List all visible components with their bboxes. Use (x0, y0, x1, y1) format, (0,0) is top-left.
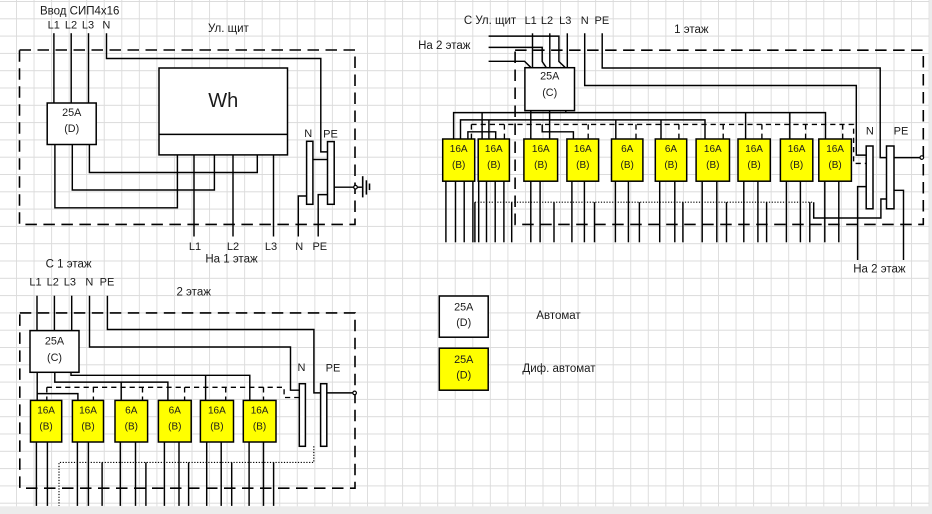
wire QF1 L1 out to meter (55, 145, 177, 208)
energy meter Wh (159, 68, 288, 155)
wire circle to ground symbol (357, 186, 362, 188)
N distribution bus dashed panel2 (47, 387, 299, 397)
bus B drop to breaker6 (660, 120, 662, 139)
wire circuit output panel3 #19 (743, 181, 745, 242)
svg-text:25А: 25А (45, 336, 65, 348)
svg-text:(В): (В) (210, 421, 223, 432)
svg-text:L2: L2 (541, 15, 553, 27)
svg-text:PE: PE (312, 241, 327, 253)
svg-text:(С): (С) (47, 352, 62, 364)
bus B drop to breaker5 (615, 120, 617, 139)
wire L2 input to breaker (70, 33, 72, 103)
N drop to breaker10 panel3 (842, 124, 844, 139)
breaker QF1 25A (D) panel1 (47, 103, 96, 145)
wire PE drop circuit 8 panel3 (766, 202, 768, 242)
wire PE drop circuit1 panel3 (474, 202, 476, 242)
svg-text:16А: 16А (826, 144, 844, 155)
wire jumper to breaker4 (542, 124, 573, 139)
wire PE input to PE bus panel3 (602, 33, 886, 157)
wire PE drop circuit 2 panel3 (511, 202, 513, 242)
svg-text:25А: 25А (454, 354, 474, 366)
wire L2 input to QF2 (53, 296, 55, 331)
svg-text:(D): (D) (64, 123, 79, 135)
svg-text:(В): (В) (828, 160, 841, 171)
wire QF3 out L2 to breaker3 right (549, 111, 551, 139)
breaker QD3.10 16А (B) panel3 (819, 139, 852, 181)
svg-text:(В): (В) (253, 421, 266, 432)
wire circuit output panel3 #22 (799, 181, 801, 242)
wire PE to 2nd floor (894, 190, 904, 260)
svg-text:(В): (В) (621, 160, 634, 171)
wire PE drop circuit 9 panel3 (809, 202, 811, 242)
wire PE drop circuit 6 panel3 (682, 202, 684, 242)
ground symbol bar 3 (short) (369, 184, 371, 191)
svg-text:(В): (В) (747, 160, 760, 171)
wire N input to N bus panel2 (90, 296, 300, 391)
svg-text:L1: L1 (189, 241, 201, 253)
bus A drop to breaker8 (745, 113, 747, 139)
N bus bar panel1 (307, 141, 313, 204)
svg-text:(В): (В) (487, 160, 500, 171)
svg-text:L3: L3 (64, 277, 76, 289)
svg-text:6А: 6А (169, 406, 182, 417)
N drop to breaker4 panel2 (184, 387, 186, 400)
wire 2nd floor tap L3 (489, 36, 566, 68)
wire L1 input to QF2 (36, 296, 38, 331)
wire circuit output 1L panel2 (35, 442, 37, 506)
wire circuit output panel3 #1 (445, 181, 447, 242)
svg-text:L3: L3 (559, 15, 571, 27)
svg-text:С 1 этаж: С 1 этаж (46, 258, 92, 270)
wire circuit output panel3 #9 (530, 181, 532, 242)
wire circuit output panel3 #10 (539, 181, 541, 242)
svg-text:(D): (D) (456, 317, 471, 329)
svg-text:25А: 25А (62, 107, 82, 119)
N drop to breaker1 panel3 (470, 124, 472, 139)
svg-text:25А: 25А (540, 70, 560, 82)
breaker QD2.6 16А (B) panel2 (243, 400, 276, 442)
panel 3 enclosure (1st floor) dashed border (515, 50, 923, 224)
PE bus bar panel3 (887, 146, 895, 209)
svg-text:25А: 25А (454, 302, 474, 314)
breaker QD2.2 16А (B) panel2 (72, 400, 103, 442)
svg-text:(В): (В) (452, 160, 465, 171)
svg-text:16А: 16А (79, 406, 97, 417)
wire PE bus to border circle panel3 (894, 157, 920, 159)
wire PE bus to ground circle (334, 186, 354, 188)
wire L3 input to breaker (88, 33, 90, 103)
wire PE drop circuit 6 panel2 (273, 462, 275, 506)
breaker QD2.4 6А (B) panel2 (158, 400, 191, 442)
legend symbol: circuit breaker 25A (D) (439, 296, 488, 337)
breaker QD3.1 16А (B) panel3 (443, 139, 475, 181)
wire circuit output 3L panel2 (119, 442, 121, 506)
N bus bar panel2 (299, 384, 305, 447)
wire PE drop circuit 4 panel3 (594, 202, 596, 242)
wire circuit output panel3 #8 (503, 181, 505, 242)
meter terminal divider line (159, 133, 288, 135)
breaker QD3.8 16А (B) panel3 (738, 139, 770, 181)
wire circuit output panel3 #15 (659, 181, 661, 242)
wire 2nd floor tap L2 (489, 47, 547, 68)
wire circuit output 4N panel2 (178, 442, 180, 506)
wire 2nd floor tap L1 (489, 61, 532, 68)
breaker QD3.5 6А (B) panel3 (612, 139, 643, 181)
svg-text:(В): (В) (576, 160, 589, 171)
svg-text:(В): (В) (39, 421, 52, 432)
phase bus A panel3 (454, 113, 826, 139)
svg-text:На 2 этаж: На 2 этаж (853, 263, 906, 275)
wire circuit output panel3 #20 (757, 181, 759, 242)
wire circuit output panel3 #2 (455, 181, 457, 242)
svg-text:6А: 6А (125, 406, 138, 417)
svg-text:Ул. щит: Ул. щит (208, 23, 250, 35)
svg-text:L3: L3 (82, 20, 94, 32)
wire circuit output panel3 #23 (824, 181, 826, 242)
breaker QD3.7 16А (B) panel3 (696, 139, 729, 181)
wire PE drop circuit 4 panel2 (188, 462, 190, 506)
N drop to breaker5 panel3 (635, 124, 637, 139)
wire L3 input to QF2 (71, 296, 73, 331)
wire meter L2 output down (232, 155, 234, 237)
breaker QD3.6 6А (B) panel3 (655, 139, 686, 181)
bus A drop to breaker2 (481, 113, 483, 139)
N drop to breaker7 panel3 (722, 124, 724, 139)
wire L2 input to QF3 (549, 33, 551, 68)
N drop to breaker6 panel3 (678, 124, 680, 139)
svg-text:16А: 16А (37, 406, 55, 417)
wire PE drop circuit 5 panel3 (638, 202, 640, 242)
breaker QD3.4 16А (B) panel3 (567, 139, 599, 181)
N drop to breaker6 panel2 (263, 387, 265, 400)
wire circuit output panel3 #7 (494, 181, 496, 242)
wire circuit output 5L panel2 (206, 442, 208, 506)
panel 2 enclosure (2nd floor) dashed border (20, 313, 355, 488)
N drop to breaker4 panel3 (587, 124, 589, 139)
wire circuit output 2N panel2 (87, 442, 89, 506)
breaker QD2.3 6А (B) panel2 (115, 400, 148, 442)
N bus bar panel3 (866, 146, 873, 209)
bus B drop to breaker2 (488, 120, 490, 139)
wire PE drop circuit 7 panel3 (726, 202, 728, 242)
svg-text:16А: 16А (485, 144, 503, 155)
svg-text:1 этаж: 1 этаж (674, 24, 709, 36)
wire circuit output panel3 #12 (583, 181, 585, 242)
legend symbol: RCBO 25A (D) yellow (439, 348, 488, 390)
svg-text:Wh: Wh (208, 90, 238, 112)
svg-text:L2: L2 (47, 277, 59, 289)
wire PE drop circuit 2 panel2 (101, 462, 103, 506)
N drop to breaker2 panel3 (503, 124, 505, 139)
svg-text:N: N (85, 277, 93, 289)
svg-text:L2: L2 (227, 241, 239, 253)
wire PE input to PE bus panel2 (107, 296, 320, 393)
N drop to breaker9 panel3 (805, 124, 807, 139)
wire meter L3 output down (273, 155, 275, 237)
svg-text:PE: PE (894, 125, 909, 137)
wire circuit output panel3 #14 (627, 181, 629, 242)
breaker QD3.2 16А (B) panel3 (478, 139, 509, 181)
svg-text:(В): (В) (534, 160, 547, 171)
ground symbol bar 2 (mid) (365, 180, 367, 194)
svg-text:16А: 16А (450, 144, 468, 155)
wire L1 input to QF3 (532, 33, 534, 68)
wire PE bus to border circle panel2 (327, 392, 353, 394)
wire PE drop circuit 3 panel3 (553, 202, 555, 242)
wire circuit output 1N panel2 (46, 442, 48, 506)
svg-text:16А: 16А (745, 144, 763, 155)
wire circuit output panel3 #13 (614, 181, 616, 242)
svg-text:PE: PE (323, 128, 338, 140)
phase bus B panel3 (461, 120, 706, 139)
wire PE drop circuit 5 panel2 (231, 462, 233, 506)
svg-text:(С): (С) (542, 87, 557, 99)
svg-text:С Ул. щит: С Ул. щит (464, 15, 517, 27)
breaker QD3.9 16А (B) panel3 (780, 139, 812, 181)
wire QF3 out L3 stub to bus A (565, 111, 567, 113)
breaker QF2 25A (C) panel2 (30, 331, 79, 373)
wire QF1 L2 out to meter (72, 145, 214, 191)
N drop to breaker3 panel2 (142, 387, 144, 400)
wire PE drop circuit 3 panel2 (145, 462, 147, 506)
wire circuit output panel3 #16 (674, 181, 676, 242)
svg-text:(В): (В) (168, 421, 181, 432)
wire N to 2nd floor (858, 187, 867, 260)
wire N-PE bridge panel1 (313, 159, 328, 161)
wire L1 jumper to breaker2 (37, 394, 78, 401)
svg-text:2 этаж: 2 этаж (176, 287, 211, 299)
svg-text:N: N (304, 128, 312, 140)
svg-text:PE: PE (595, 15, 610, 27)
svg-text:N: N (102, 20, 110, 32)
svg-text:Автомат: Автомат (536, 310, 581, 322)
wire L2 drop to breaker3 (120, 382, 122, 400)
wire PE bus output down (318, 195, 327, 237)
wire L1 input to breaker (53, 33, 55, 103)
wire circuit output 2L panel2 (76, 442, 78, 506)
N drop to breaker2 panel2 (92, 387, 94, 400)
N drop to breaker1 panel2 (46, 387, 48, 400)
svg-text:6А: 6А (621, 144, 634, 155)
PE bus bar panel2 (321, 384, 327, 447)
svg-text:(В): (В) (664, 160, 677, 171)
svg-text:16А: 16А (788, 144, 806, 155)
wire L3 drop to breaker5 (205, 375, 207, 400)
wire N input to PE bus (107, 33, 328, 152)
svg-text:(D): (D) (456, 369, 471, 381)
PE dotted distribution panel3 (475, 201, 814, 203)
svg-text:16А: 16А (532, 144, 550, 155)
wire circuit output panel3 #6 (486, 181, 488, 242)
svg-text:16А: 16А (208, 406, 226, 417)
breaker QD2.5 16А (B) panel2 (200, 400, 233, 442)
PE bus bar panel1 (328, 142, 335, 205)
svg-text:(В): (В) (706, 160, 719, 171)
svg-text:N: N (295, 241, 303, 253)
breaker QF3 25A (C) panel3 (525, 68, 575, 111)
svg-text:N: N (581, 15, 589, 27)
wire circuit output panel3 #21 (785, 181, 787, 242)
PE dotted distribution panel2 (59, 446, 314, 506)
wire L3 input to QF3 (566, 33, 568, 68)
ground symbol bar 1 (long) (362, 176, 364, 197)
wire QF2 L2 bus to breaker4 (55, 372, 168, 400)
wire meter L1 output down (193, 155, 195, 237)
wire circuit output 4L panel2 (163, 442, 165, 506)
svg-text:Диф. автомат: Диф. автомат (522, 363, 596, 375)
svg-text:N: N (866, 125, 874, 137)
breaker QD2.1 16А (B) panel2 (31, 400, 62, 442)
svg-text:L1: L1 (29, 277, 41, 289)
wire QF3 out L1 to breaker3 (530, 111, 532, 139)
wire circuit output panel3 #18 (716, 181, 718, 242)
bus A drop to breaker9 (789, 113, 791, 139)
wire circuit output 5N panel2 (220, 442, 222, 506)
N drop to breaker5 panel2 (225, 387, 227, 400)
svg-text:L2: L2 (65, 20, 77, 32)
svg-text:PE: PE (326, 362, 341, 374)
svg-text:L1: L1 (525, 15, 537, 27)
svg-text:16А: 16А (574, 144, 592, 155)
svg-text:(В): (В) (790, 160, 803, 171)
connection circle panel3 (920, 156, 924, 160)
svg-text:16А: 16А (251, 406, 269, 417)
phase bus D panel3 (468, 132, 496, 139)
wire QF2 L3 bus to breaker6 (71, 372, 250, 400)
wire circuit output 6L panel2 (248, 442, 250, 506)
wire QF2 L1 out to breaker1 (36, 372, 38, 400)
wire circuit output panel3 #3 (463, 181, 465, 242)
wire circuit output panel3 #24 (838, 181, 840, 242)
svg-text:6А: 6А (665, 144, 678, 155)
svg-text:(В): (В) (125, 421, 138, 432)
wire circuit output panel3 #4 (472, 181, 474, 242)
svg-text:L1: L1 (48, 20, 60, 32)
wire PE dotted bus link to PE bar (814, 199, 887, 218)
svg-text:(В): (В) (81, 421, 94, 432)
wire circuit output panel3 #17 (701, 181, 703, 242)
breaker QD3.3 16А (B) panel3 (524, 139, 558, 181)
svg-text:L3: L3 (265, 241, 277, 253)
N distribution bus dashed panel3 (471, 124, 866, 163)
ground connection circle panel1 (354, 185, 358, 189)
wire circuit output 6N panel2 (263, 442, 265, 506)
wire QF1 L3 out to meter (89, 145, 257, 173)
wire N bus output down (298, 196, 306, 237)
panel 1 enclosure (street panel) dashed border (20, 50, 356, 224)
svg-text:16А: 16А (704, 144, 722, 155)
svg-text:Ввод СИП4х16: Ввод СИП4х16 (40, 6, 119, 18)
wire circuit output panel3 #11 (571, 181, 573, 242)
wire circuit output panel3 #5 (478, 181, 480, 242)
N drop to breaker8 panel3 (761, 124, 763, 139)
wire circuit output 3N panel2 (135, 442, 137, 506)
svg-text:PE: PE (100, 277, 115, 289)
svg-text:На 2 этаж: На 2 этаж (418, 40, 471, 52)
svg-text:N: N (298, 362, 306, 374)
svg-text:На 1 этаж: На 1 этаж (205, 254, 258, 266)
connection circle panel2 (353, 391, 357, 395)
wire N input to N bus panel3 (585, 33, 867, 155)
